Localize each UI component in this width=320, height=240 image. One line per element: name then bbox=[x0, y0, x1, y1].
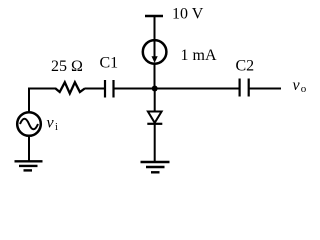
wire: node A down to diode D1 bbox=[154, 89, 156, 112]
diode D1 bbox=[147, 112, 162, 124]
node A junction dot bbox=[152, 86, 158, 92]
wire: supply bar to current source bbox=[154, 16, 156, 40]
svg-text:1 mA: 1 mA bbox=[181, 47, 217, 64]
svg-text:10 V: 10 V bbox=[172, 6, 204, 23]
wire: resistor to C1 bbox=[85, 88, 105, 90]
svg-text:i: i bbox=[55, 122, 58, 133]
10 V supply terminal bar bbox=[145, 15, 163, 18]
resistor R1 (25 ohm) bbox=[56, 82, 85, 93]
svg-text:o: o bbox=[301, 83, 307, 95]
svg-text:C1: C1 bbox=[100, 55, 119, 72]
wire: node A to C2 bbox=[155, 88, 240, 90]
wire: AC source up to main wire corner bbox=[29, 89, 56, 112]
capacitor C2 bbox=[240, 79, 249, 97]
wire: C1 to node A bbox=[114, 88, 155, 90]
capacitor C1 bbox=[105, 80, 114, 98]
ground (left) bbox=[15, 161, 43, 170]
svg-text:v: v bbox=[293, 77, 301, 94]
wire: C2 to output vo bbox=[249, 88, 281, 90]
svg-text:25 Ω: 25 Ω bbox=[51, 58, 83, 75]
wire: AC source to left ground bbox=[28, 136, 30, 161]
AC source vi bbox=[17, 112, 41, 136]
wire: diode to right ground bbox=[154, 124, 156, 162]
svg-text:C2: C2 bbox=[236, 58, 255, 75]
svg-text:v: v bbox=[47, 115, 55, 132]
current source I1 (1 mA) bbox=[143, 40, 167, 64]
wire: current source to node A bbox=[154, 65, 156, 89]
ground (right) bbox=[141, 162, 170, 172]
